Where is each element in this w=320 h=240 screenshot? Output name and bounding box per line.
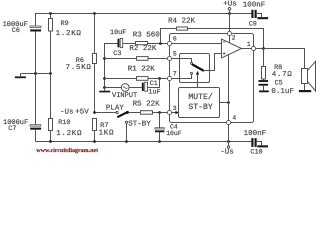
svg-text:1: 1 <box>247 41 251 48</box>
svg-text:R1 22K: R1 22K <box>128 65 156 74</box>
pin 2 <box>227 31 231 35</box>
wire op-amp output to pin1 <box>242 48 252 50</box>
switch PLAY right contact <box>126 111 128 113</box>
svg-text:C9: C9 <box>249 20 257 28</box>
node R5/C4 <box>158 111 161 114</box>
speaker LS1 <box>302 61 316 91</box>
svg-text:7: 7 <box>173 70 177 77</box>
svg-text:1.2KΩ: 1.2KΩ <box>56 29 82 38</box>
svg-text:100nF: 100nF <box>244 129 267 138</box>
op-amp U1a <box>222 39 242 58</box>
svg-text:C7: C7 <box>8 125 16 133</box>
arrow into MUTE box <box>175 111 179 114</box>
contact ST-BY <box>125 121 127 123</box>
svg-text:www.circuitdiagram.net: www.circuitdiagram.net <box>36 147 98 154</box>
capacitor C3 <box>118 38 136 47</box>
pin 5 <box>167 56 171 60</box>
node output <box>262 47 265 50</box>
switch control arrow <box>196 71 199 75</box>
switch lever <box>193 65 203 71</box>
node R6/rail junction <box>93 12 96 15</box>
capacitor C9 <box>251 10 261 18</box>
svg-text:0.1uF: 0.1uF <box>271 87 294 96</box>
node MUTE/pin4 line <box>227 101 230 104</box>
wire pin2 to op-amp <box>229 35 231 43</box>
wire +5V row <box>95 112 117 114</box>
node pin4/rail <box>227 140 230 143</box>
svg-text:+Us: +Us <box>223 0 237 8</box>
ground (C9) <box>257 17 268 19</box>
svg-text:R3 560: R3 560 <box>133 31 161 40</box>
svg-text:-Us: -Us <box>60 109 74 117</box>
op-amp plus sign <box>223 52 226 55</box>
node bus/R2 <box>103 57 106 60</box>
ground (speaker) <box>299 90 311 92</box>
capacitor C4 <box>155 113 165 142</box>
pin 1 <box>251 46 255 50</box>
resistor R7 <box>93 119 97 142</box>
wire pin1 to output node <box>255 48 263 50</box>
svg-text:MUTE/: MUTE/ <box>188 93 212 102</box>
wire -Us bottom rail <box>36 141 252 143</box>
wire control arrow to MUTE box <box>197 75 199 88</box>
svg-text:R9: R9 <box>61 20 69 28</box>
node R7/rail <box>93 140 96 143</box>
svg-text:6: 6 <box>173 35 177 42</box>
resistor R3 <box>136 42 168 45</box>
node C4/rail <box>158 140 161 143</box>
wire +Us to pin2 <box>229 10 231 32</box>
svg-text:C1: C1 <box>150 80 158 88</box>
svg-text:1.2KΩ: 1.2KΩ <box>56 129 82 138</box>
svg-text:1KΩ: 1KΩ <box>99 128 115 137</box>
switch lower contact <box>191 72 193 74</box>
IC box U1 <box>170 34 254 123</box>
svg-text:C3: C3 <box>113 50 121 58</box>
terminal +Us <box>228 8 231 11</box>
capacitor C1 <box>142 79 160 92</box>
svg-text:10uF: 10uF <box>166 130 182 137</box>
ground (C10) <box>257 145 268 147</box>
switch upper contact <box>191 62 193 64</box>
op-amp minus sign <box>223 41 225 43</box>
ground (VINPUT) <box>99 88 110 93</box>
svg-text:4: 4 <box>232 115 236 122</box>
svg-text:ST-BY: ST-BY <box>188 103 212 112</box>
svg-text:R2 22K: R2 22K <box>129 44 157 53</box>
node R1/C1 <box>158 77 161 80</box>
resistor R5 <box>129 111 168 115</box>
pin 6 <box>167 41 171 45</box>
node C6/ground row <box>34 72 37 75</box>
node bus/R1 <box>103 77 106 80</box>
switch PLAY lever <box>118 112 127 117</box>
wire pin7 to switch lower contact <box>171 75 191 79</box>
wire pin3 to MUTE box <box>171 112 175 114</box>
svg-text:R5 22K: R5 22K <box>133 100 161 109</box>
resistor R10 <box>49 74 53 142</box>
svg-text:C6: C6 <box>12 27 20 35</box>
capacitor C10 <box>251 138 261 147</box>
svg-text:100nF: 100nF <box>243 1 266 10</box>
svg-text:+5V: +5V <box>75 109 89 117</box>
wire input bus <box>105 44 118 88</box>
node ST-BY/rail <box>125 140 128 143</box>
switch PLAY left contact <box>116 111 118 113</box>
node R9/ground row <box>49 72 52 75</box>
wire ST-BY contact to rail <box>126 123 128 141</box>
source VINPUT <box>105 84 142 92</box>
wire output to speaker <box>264 49 305 69</box>
node +5V/R6/R7 <box>93 111 96 114</box>
wire pin6 to op-amp inverting input <box>171 43 221 45</box>
svg-text:4.7Ω: 4.7Ω <box>272 70 293 79</box>
wire lever to op-amp non-inverting input <box>203 54 221 71</box>
switch box (inside IC) <box>180 54 210 83</box>
capacitor C7 <box>30 74 41 142</box>
svg-text:3: 3 <box>173 105 177 112</box>
resistor R4 <box>161 27 264 49</box>
svg-text:C5: C5 <box>275 79 283 87</box>
svg-text:R10: R10 <box>58 119 70 127</box>
capacitor C5 <box>259 80 269 90</box>
node +Us/rail junction <box>228 12 231 15</box>
resistor R1 <box>105 77 168 81</box>
svg-text:1uF: 1uF <box>148 88 160 96</box>
node R3/R4 <box>159 42 162 45</box>
node bus/VINPUT <box>103 86 106 89</box>
resistor R8 <box>262 49 266 81</box>
resistor R2 <box>105 57 168 61</box>
svg-text:5: 5 <box>173 50 177 57</box>
wire left ground row <box>21 73 51 75</box>
svg-text:2: 2 <box>232 34 236 41</box>
terminal -Us <box>227 142 229 149</box>
resistor R9 <box>49 14 53 74</box>
svg-text:7.5KΩ: 7.5KΩ <box>66 63 92 72</box>
wire MUTE box to pin4 line <box>220 102 229 104</box>
capacitor C6 <box>30 26 41 74</box>
ground (C5) <box>259 90 269 92</box>
pin 4 <box>226 120 230 124</box>
MUTE/ST-BY box <box>179 88 220 118</box>
svg-text:PLAY: PLAY <box>106 104 125 112</box>
node R10/rail <box>49 140 52 143</box>
wire top +Us rail <box>36 14 252 27</box>
pin 7 <box>167 76 171 80</box>
ground (left mid) <box>15 74 26 79</box>
svg-text:10uF: 10uF <box>110 29 126 37</box>
pin 3 <box>167 110 171 114</box>
wire pin5 to switch upper contact <box>171 59 191 63</box>
svg-text:R4 22K: R4 22K <box>168 16 196 25</box>
wire pin4 to rail <box>228 124 230 141</box>
svg-text:ST-BY: ST-BY <box>128 119 151 128</box>
svg-text:C10: C10 <box>250 149 262 157</box>
resistor R6 <box>93 14 97 113</box>
node R9/rail junction <box>49 12 52 15</box>
svg-text:VINPUT: VINPUT <box>112 92 137 100</box>
wire op-amp to pin4 <box>228 55 230 121</box>
svg-text:-Us: -Us <box>220 149 234 157</box>
